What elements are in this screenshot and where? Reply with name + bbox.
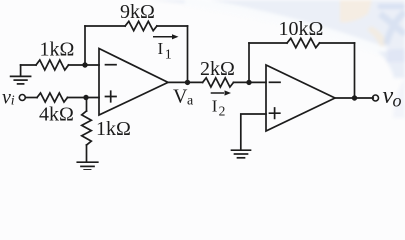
svg-text:V: V — [173, 86, 188, 108]
node A (U1 inverting input junction) — [82, 62, 87, 67]
resistor R2 9kohm (feedback of U1) — [125, 21, 157, 30]
svg-text:10kΩ: 10kΩ — [279, 18, 324, 40]
svg-text:2kΩ: 2kΩ — [200, 58, 235, 80]
wire feedback2 right vertical down to node E — [354, 43, 356, 98]
wire U1 output to 2k — [168, 81, 203, 83]
terminal vo — [373, 95, 379, 101]
svg-text:a: a — [187, 93, 194, 108]
svg-text:i: i — [11, 94, 15, 109]
wire vi terminal to R3 — [26, 97, 37, 99]
resistor R4 1kohm (vertical to ground) — [82, 111, 92, 145]
op-amp U1 — [99, 49, 168, 116]
wire R5 to inverting input U2 — [234, 81, 267, 83]
wire ground G1 to R1 — [21, 64, 36, 66]
resistor R1 1kohm (top-left input) — [36, 60, 69, 70]
svg-text:1kΩ: 1kΩ — [40, 39, 75, 61]
node E (vo output junction) — [352, 95, 357, 100]
wire feedback2 top rail — [249, 42, 355, 44]
svg-text:I: I — [158, 39, 164, 58]
op-amp U2 — [266, 65, 335, 131]
ground G3 (below U2 + input) — [232, 150, 251, 158]
svg-text:v: v — [2, 87, 11, 109]
resistor R6 10kohm (feedback of U2) — [287, 38, 320, 47]
terminal vi — [19, 95, 25, 101]
node D (U2 inverting input junction) — [246, 80, 251, 85]
ground G1 (left input ground) — [11, 65, 31, 84]
wire R3 to noninverting input U1 — [68, 97, 100, 99]
resistor R3 4kohm (vi input) — [37, 93, 68, 102]
svg-text:1: 1 — [165, 48, 172, 63]
node C (U1 + input junction) — [83, 95, 88, 100]
wire noninverting input U2 to corner — [241, 114, 266, 149]
wire R4 to ground G2 — [86, 145, 88, 162]
wire node C down to R4 — [86, 98, 88, 112]
wire feedback left vertical (node A up) — [84, 26, 86, 65]
wire R1 to node A — [69, 64, 100, 66]
svg-text:o: o — [393, 90, 402, 110]
svg-text:I: I — [212, 96, 218, 115]
wire feedback right vertical down to node B — [187, 26, 189, 82]
node B (Va output of U1) — [185, 80, 190, 85]
current arrow I1 — [153, 34, 179, 39]
wire feedback2 left vertical (node D up) — [248, 43, 250, 82]
ground G2 (below R4) — [77, 162, 98, 170]
svg-text:1kΩ: 1kΩ — [96, 118, 131, 140]
svg-text:2: 2 — [219, 103, 226, 118]
wire U2 output to vo terminal — [335, 97, 373, 99]
wire feedback top rail — [85, 25, 188, 27]
svg-text:4kΩ: 4kΩ — [39, 104, 74, 126]
resistor R5 2kohm (between stages) — [203, 78, 234, 87]
svg-text:9kΩ: 9kΩ — [120, 1, 155, 23]
current arrow I2 — [211, 90, 231, 95]
